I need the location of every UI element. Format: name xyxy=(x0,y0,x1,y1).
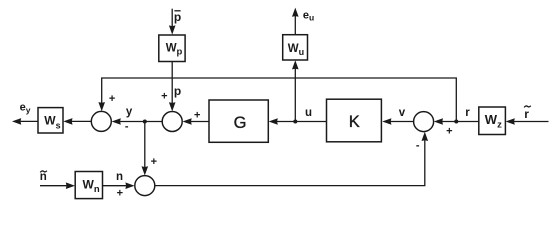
label Wu xyxy=(288,43,304,57)
block G xyxy=(209,100,268,142)
svg-text:+: + xyxy=(109,93,115,105)
label G xyxy=(234,114,247,132)
label K xyxy=(349,113,360,131)
label n xyxy=(116,171,123,183)
block Wu xyxy=(283,35,308,60)
summing junction S4 xyxy=(135,176,155,196)
svg-text:-: - xyxy=(125,120,129,132)
wire S3 to K xyxy=(382,118,413,125)
wire Wz to S3 xyxy=(434,118,479,125)
svg-text:Wn: Wn xyxy=(83,178,100,196)
label minus at S3 bottom xyxy=(416,139,420,151)
svg-text:G: G xyxy=(234,114,247,132)
label p-bar xyxy=(174,10,181,24)
label plus at S4 left xyxy=(117,188,123,200)
label Wn xyxy=(83,178,100,196)
summing junction S3 xyxy=(414,112,434,132)
wire G to S2 xyxy=(183,118,210,125)
svg-text:u: u xyxy=(305,107,312,119)
wire S1 to Ws xyxy=(63,118,91,125)
svg-text:v: v xyxy=(399,107,406,119)
junction dot y xyxy=(143,120,147,124)
label ey xyxy=(20,102,31,115)
svg-text:y: y xyxy=(126,106,133,118)
label eu xyxy=(303,9,314,22)
label plus at S4 top xyxy=(151,156,157,168)
svg-text:r: r xyxy=(465,107,470,119)
svg-text:Wz: Wz xyxy=(485,112,502,130)
svg-text:n: n xyxy=(40,171,47,183)
svg-text:+: + xyxy=(194,110,200,122)
label r xyxy=(465,107,470,119)
label ntilde xyxy=(40,171,47,183)
label v xyxy=(399,107,406,119)
svg-text:p: p xyxy=(174,10,181,24)
wire y branch to S4 xyxy=(142,122,149,176)
label Wp xyxy=(166,42,183,57)
svg-text:-: - xyxy=(416,139,420,151)
wire u branch to Wu xyxy=(292,60,299,121)
label u xyxy=(305,107,312,119)
svg-text:ey: ey xyxy=(20,102,31,115)
svg-text:p: p xyxy=(174,84,181,98)
label plus at S3 right xyxy=(446,125,452,137)
svg-text:Ws: Ws xyxy=(44,114,60,131)
svg-text:+: + xyxy=(151,156,157,168)
label p xyxy=(174,84,181,98)
label minus at S1 right xyxy=(125,120,129,132)
wire rtilde input xyxy=(506,118,549,125)
svg-text:K: K xyxy=(349,113,360,131)
wire K to G xyxy=(269,118,327,125)
svg-text:+: + xyxy=(161,91,167,103)
block K xyxy=(327,99,382,142)
feedback wire r to S1 top xyxy=(98,78,456,122)
wire Wp to sum S2 xyxy=(169,62,176,112)
label y xyxy=(126,106,133,118)
svg-text:+: + xyxy=(446,125,452,137)
svg-text:+: + xyxy=(117,188,123,200)
label plus at S2 right xyxy=(194,110,200,122)
summing junction S2 xyxy=(162,112,182,132)
wire ntilde input xyxy=(40,182,75,189)
block Wz xyxy=(479,107,506,135)
label plus at S2 top xyxy=(161,91,167,103)
block Ws xyxy=(38,108,63,133)
block Wn xyxy=(75,172,102,199)
label Wz xyxy=(485,112,502,130)
junction dot u xyxy=(293,120,297,124)
wire p-bar input xyxy=(169,9,176,35)
wire S4 to S3 bottom xyxy=(155,132,428,186)
label plus at S1 top xyxy=(109,93,115,105)
svg-text:Wu: Wu xyxy=(288,43,304,57)
block Wp xyxy=(159,35,185,62)
label rtilde xyxy=(524,106,531,122)
junction dot r xyxy=(454,120,458,124)
svg-text:r: r xyxy=(524,107,529,121)
wire Wn to S4 xyxy=(103,182,135,189)
wire eu output xyxy=(292,8,299,35)
svg-text:eu: eu xyxy=(303,9,314,22)
svg-text:Wp: Wp xyxy=(166,42,183,57)
label Ws xyxy=(44,114,60,131)
wire ey output xyxy=(12,118,38,125)
svg-text:n: n xyxy=(116,171,123,183)
summing junction S1 xyxy=(91,111,111,131)
wire S2 to S1 xyxy=(112,118,163,125)
